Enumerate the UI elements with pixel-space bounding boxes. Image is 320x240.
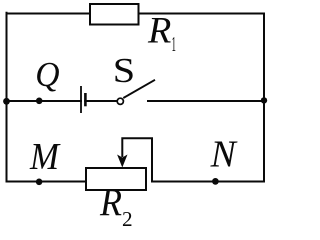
svg-text:R: R xyxy=(99,181,122,225)
svg-text:M: M xyxy=(29,134,61,177)
svg-text:S: S xyxy=(113,53,135,91)
svg-text:1: 1 xyxy=(172,33,176,56)
svg-text:2: 2 xyxy=(122,207,133,227)
svg-text:N: N xyxy=(210,133,239,175)
svg-text:R: R xyxy=(147,11,171,51)
svg-text:Q: Q xyxy=(35,56,59,93)
